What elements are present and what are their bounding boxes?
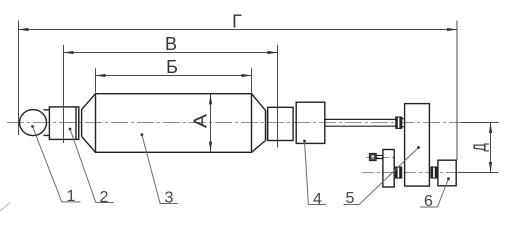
svg-text:5: 5 xyxy=(346,190,355,207)
stub right xyxy=(267,110,269,140)
dimension Д (vertical right) xyxy=(490,123,492,172)
valve stem xyxy=(376,155,383,158)
guide bushing block xyxy=(268,107,294,140)
rod stub at part 5 xyxy=(402,119,405,127)
extension line right of lower axis xyxy=(458,172,499,174)
centerline main axis xyxy=(7,122,461,124)
svg-text:2: 2 xyxy=(100,189,109,206)
part 2 block xyxy=(49,107,78,139)
valve body plate xyxy=(383,150,394,188)
cone right xyxy=(252,94,266,153)
part 5 bracket block xyxy=(405,104,430,187)
svg-text:1: 1 xyxy=(67,188,76,205)
part 6 block xyxy=(438,160,456,186)
svg-text:Г: Г xyxy=(232,12,242,32)
svg-text:3: 3 xyxy=(165,190,174,207)
leader 6 xyxy=(420,179,449,207)
rod xyxy=(325,119,396,126)
cone left xyxy=(82,94,96,153)
dimension Б xyxy=(96,68,252,92)
valve head xyxy=(370,154,377,161)
centerline lower axis xyxy=(362,172,461,174)
svg-text:Д: Д xyxy=(470,143,490,152)
lower coupling right xyxy=(431,167,437,178)
leader 1 xyxy=(33,127,81,202)
part 1 eye ring xyxy=(20,110,50,136)
part 3 cylinder body xyxy=(96,94,252,153)
svg-text:6: 6 xyxy=(424,193,433,210)
leader 3 xyxy=(142,135,178,204)
dimension В xyxy=(64,45,278,147)
stub left xyxy=(79,110,82,137)
svg-text:В: В xyxy=(165,34,177,54)
leader 4 xyxy=(305,141,327,205)
svg-text:А: А xyxy=(191,113,211,128)
lower coupling left xyxy=(396,167,402,178)
svg-text:4: 4 xyxy=(313,191,322,208)
leader 5 xyxy=(343,148,418,205)
scan artifact bottom left xyxy=(0,203,10,212)
dimension А (vertical inside cylinder) xyxy=(210,94,212,151)
rod nut xyxy=(396,117,402,128)
dimension Г xyxy=(19,21,458,161)
leader 2 xyxy=(70,129,114,203)
centerline valve axis xyxy=(366,157,395,159)
extension line right of main axis xyxy=(461,122,499,124)
svg-text:Б: Б xyxy=(166,57,178,77)
part 4 block xyxy=(296,102,325,143)
